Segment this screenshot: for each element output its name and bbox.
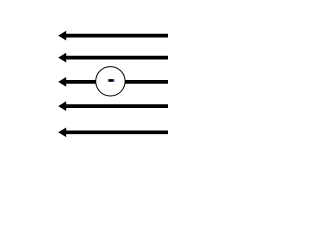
negative charge circle [96, 67, 125, 96]
field line arrow 1 [58, 31, 168, 41]
minus sign [108, 79, 115, 82]
field line arrow 5 [58, 127, 168, 137]
field line arrow 4 [58, 101, 168, 111]
field line arrow 2 [58, 53, 168, 63]
field line arrow 3 [58, 77, 168, 87]
